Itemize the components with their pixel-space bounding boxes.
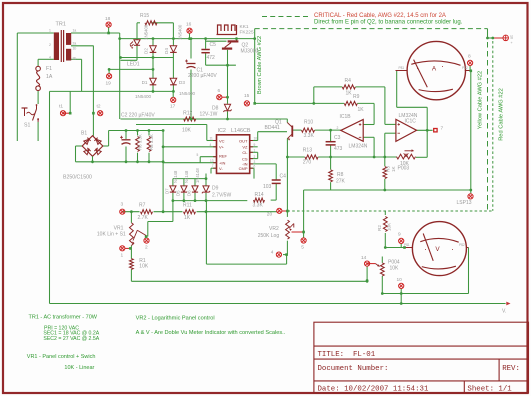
svg-text:R9: R9 <box>353 94 360 100</box>
svg-text:V+: V+ <box>219 145 225 150</box>
svg-text:9: 9 <box>398 232 401 238</box>
svg-text:13: 13 <box>210 159 214 163</box>
svg-text:R13: R13 <box>303 148 312 154</box>
svg-text:1N5400: 1N5400 <box>143 24 148 40</box>
svg-text:Red Cable AWG #22: Red Cable AWG #22 <box>499 88 505 141</box>
svg-text:CMP: CMP <box>239 166 248 171</box>
svg-text:10K: 10K <box>387 222 392 231</box>
svg-text:D9: D9 <box>212 186 219 192</box>
svg-text:Sheet: 1/1: Sheet: 1/1 <box>467 386 512 394</box>
svg-text:10K: 10K <box>139 264 149 270</box>
svg-text:D3: D3 <box>179 80 185 85</box>
svg-text:R4: R4 <box>345 78 352 84</box>
svg-text:Document Number:: Document Number: <box>318 365 389 373</box>
svg-text:27K: 27K <box>336 179 346 185</box>
svg-text:1N5400: 1N5400 <box>179 91 196 96</box>
svg-text:D5: D5 <box>176 190 181 196</box>
svg-text:CRITICAL - Red Cable, AWG #22,: CRITICAL - Red Cable, AWG #22, 14.5 cm f… <box>314 13 446 19</box>
svg-text:L146CB: L146CB <box>231 128 251 134</box>
svg-text:KK1: KK1 <box>240 24 249 30</box>
svg-text:270: 270 <box>303 160 312 166</box>
svg-text:7: 7 <box>441 126 444 132</box>
svg-text:12V-1W: 12V-1W <box>200 112 218 118</box>
svg-text:1A: 1A <box>46 74 53 80</box>
svg-text:6: 6 <box>254 165 256 169</box>
svg-text:VC: VC <box>219 138 225 143</box>
svg-text:20: 20 <box>267 212 273 218</box>
svg-text:LED1: LED1 <box>127 62 140 68</box>
svg-text:+: + <box>511 41 513 45</box>
svg-text:P$2: P$2 <box>462 66 468 70</box>
svg-text:1K: 1K <box>184 215 191 221</box>
svg-text:VR1 - Panel control + Swich: VR1 - Panel control + Swich <box>27 354 96 360</box>
svg-text:D4: D4 <box>164 48 169 54</box>
svg-text:10K Lin + S1: 10K Lin + S1 <box>97 231 126 237</box>
svg-text:A & V - Are Doble Vu Meter Ind: A & V - Are Doble Vu Meter Indicator wit… <box>136 330 286 336</box>
svg-text:CL: CL <box>242 150 248 155</box>
svg-text:11: 11 <box>210 137 214 141</box>
svg-text:472: 472 <box>207 55 216 61</box>
svg-text:A: A <box>432 65 437 72</box>
svg-text:D6: D6 <box>187 190 192 196</box>
svg-text:Date: 10/02/2007 11:54:31: Date: 10/02/2007 11:54:31 <box>318 386 429 394</box>
svg-text:5: 5 <box>197 153 199 157</box>
svg-text:V.: V. <box>502 309 506 315</box>
svg-text:2: 2 <box>145 245 148 251</box>
svg-text:N4148: N4148 <box>173 170 178 183</box>
svg-text:VZ: VZ <box>242 145 248 150</box>
svg-text:R11: R11 <box>183 203 192 209</box>
svg-text:2: 2 <box>254 155 256 159</box>
svg-text:REF: REF <box>219 154 228 159</box>
svg-text:D8: D8 <box>212 105 219 111</box>
svg-text:MJ3000: MJ3000 <box>241 49 259 55</box>
svg-text:C5: C5 <box>210 42 217 48</box>
svg-text:10K - Linear: 10K - Linear <box>64 365 94 371</box>
svg-text:16: 16 <box>186 22 192 28</box>
svg-text:2.7V/5W: 2.7V/5W <box>212 193 231 199</box>
svg-text:SEC2 = 27 VAC @ 2.5A: SEC2 = 27 VAC @ 2.5A <box>43 336 99 342</box>
svg-text:15: 15 <box>244 93 250 99</box>
svg-text:2b: 2b <box>73 57 77 61</box>
svg-text:BD441: BD441 <box>265 125 281 131</box>
svg-text:F1: F1 <box>46 66 52 72</box>
svg-text:C2 220 µF/40V: C2 220 µF/40V <box>121 113 155 119</box>
svg-text:C4: C4 <box>280 174 287 180</box>
svg-text:VR2 - Logarithmic Panel contro: VR2 - Logarithmic Panel control <box>136 315 215 321</box>
svg-text:9: 9 <box>254 143 256 147</box>
svg-text:2: 2 <box>49 43 51 47</box>
svg-text:1N5400: 1N5400 <box>178 24 183 40</box>
svg-text:2: 2 <box>337 126 339 130</box>
svg-text:10: 10 <box>254 137 258 141</box>
svg-text:Brown Cable AWG #22: Brown Cable AWG #22 <box>257 36 263 94</box>
svg-text:3.3K: 3.3K <box>304 133 315 139</box>
svg-text:4: 4 <box>49 56 51 60</box>
svg-text:17: 17 <box>170 104 176 110</box>
svg-text:VR2: VR2 <box>269 226 279 232</box>
svg-text:FK225: FK225 <box>240 30 254 36</box>
svg-text:R10: R10 <box>304 120 313 126</box>
svg-text:103: 103 <box>263 184 272 190</box>
svg-text:4: 4 <box>271 250 274 256</box>
svg-text:TITLE: FL-01: TITLE: FL-01 <box>318 351 376 359</box>
svg-text:Yellow Cable AWG #22: Yellow Cable AWG #22 <box>478 71 484 129</box>
svg-text:1N4148: 1N4148 <box>195 168 200 183</box>
svg-text:+IN: +IN <box>219 161 225 166</box>
svg-text:2.7K: 2.7K <box>138 215 149 221</box>
svg-text:1N5400: 1N5400 <box>135 94 152 99</box>
svg-text:2a: 2a <box>73 42 77 46</box>
svg-text:10: 10 <box>510 35 514 39</box>
svg-text:t2: t2 <box>97 104 101 110</box>
svg-text:1: 1 <box>49 29 51 33</box>
svg-text:B1: B1 <box>81 130 87 136</box>
svg-text:1K: 1K <box>346 91 353 97</box>
svg-text:D7: D7 <box>165 188 170 194</box>
svg-text:TR1 - AC transformer - 70W: TR1 - AC transformer - 70W <box>29 315 98 321</box>
svg-text:CS: CS <box>242 156 248 161</box>
svg-text:S1: S1 <box>24 123 30 129</box>
svg-text:4: 4 <box>210 143 212 147</box>
svg-text:R15: R15 <box>140 13 149 19</box>
svg-text:LSP13: LSP13 <box>457 200 472 206</box>
svg-text:R8: R8 <box>337 172 344 178</box>
svg-text:19: 19 <box>106 81 112 87</box>
svg-text:6: 6 <box>218 88 221 94</box>
svg-text:10K: 10K <box>390 266 400 272</box>
svg-text:7: 7 <box>212 164 214 168</box>
svg-text:1: 1 <box>254 149 256 153</box>
svg-text:1K: 1K <box>391 165 396 172</box>
svg-text:LM324N: LM324N <box>349 144 368 150</box>
svg-text:3: 3 <box>121 202 124 208</box>
svg-text:IC1C: IC1C <box>405 118 417 124</box>
svg-text:P$1: P$1 <box>404 243 410 247</box>
svg-text:OUT: OUT <box>239 138 248 143</box>
svg-text:P$1: P$1 <box>399 66 405 70</box>
svg-text:V-: V- <box>219 166 223 171</box>
svg-text:10K: 10K <box>182 128 192 134</box>
svg-text:R14: R14 <box>255 192 264 198</box>
svg-text:18: 18 <box>105 16 111 22</box>
svg-text:N4148: N4148 <box>184 170 189 183</box>
svg-text:t1: t1 <box>59 104 63 110</box>
svg-text:IC2: IC2 <box>218 128 226 134</box>
svg-text:P$2: P$2 <box>459 243 465 247</box>
svg-text:REV:: REV: <box>502 365 520 373</box>
svg-text:R12: R12 <box>183 110 192 116</box>
svg-text:Direct from E pin of Q2, to ba: Direct from E pin of Q2, to banana conne… <box>314 20 463 26</box>
svg-text:5: 5 <box>301 245 304 251</box>
svg-text:C3: C3 <box>334 135 341 141</box>
svg-text:R6 3.3K: R6 3.3K <box>138 134 143 150</box>
svg-text:10: 10 <box>397 277 403 283</box>
svg-text:V: V <box>435 246 440 253</box>
svg-text:IC1B: IC1B <box>340 114 352 120</box>
svg-text:B250/C1500: B250/C1500 <box>63 175 92 181</box>
svg-text:250K Log: 250K Log <box>258 233 280 239</box>
svg-text:1K: 1K <box>358 107 365 113</box>
svg-text:3.3K: 3.3K <box>253 203 264 209</box>
svg-text:1: 1 <box>121 253 124 259</box>
svg-text:473: 473 <box>334 146 343 152</box>
svg-text:R7: R7 <box>139 203 146 209</box>
svg-text:R2: R2 <box>377 225 382 231</box>
svg-text:TR1: TR1 <box>56 22 66 28</box>
svg-text:1b: 1b <box>73 47 77 51</box>
svg-text:P003: P003 <box>398 166 410 172</box>
svg-text:14: 14 <box>361 255 367 261</box>
svg-text:R3: R3 <box>385 166 390 172</box>
svg-text:R5 3.3K: R5 3.3K <box>149 134 154 150</box>
svg-text:1a: 1a <box>73 29 77 33</box>
svg-text:D1: D1 <box>142 80 148 85</box>
svg-text:D2: D2 <box>144 48 149 54</box>
svg-text:8: 8 <box>468 54 471 60</box>
svg-text:2200 µF/40V: 2200 µF/40V <box>188 73 217 79</box>
